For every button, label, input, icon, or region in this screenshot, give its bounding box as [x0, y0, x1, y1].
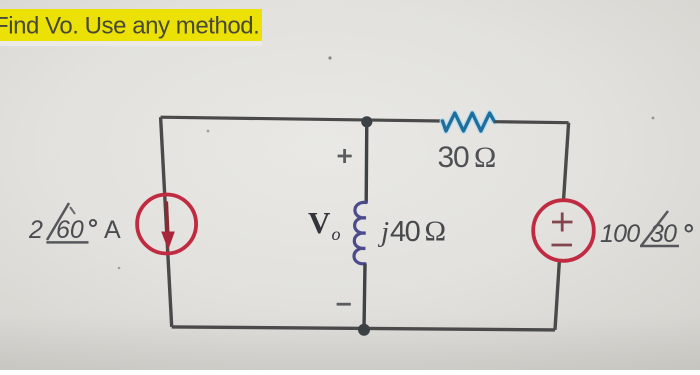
svg-text:o: o [332, 224, 341, 244]
svg-text:Ω: Ω [474, 141, 496, 174]
svg-text:100: 100 [600, 220, 640, 248]
label + (Vo polarity top) [338, 149, 352, 163]
resistor R 30ohm glow [443, 113, 495, 131]
svg-text:V: V [308, 205, 331, 240]
node top [361, 116, 372, 127]
voltage source plus [552, 213, 573, 232]
resistor R 30ohm [443, 113, 495, 131]
wire: top (left part) [161, 117, 443, 121]
speck [207, 130, 210, 133]
wire: right (lower, out of V-source) [555, 261, 559, 330]
wire: top (right part) [495, 122, 569, 123]
current source I1 circle [137, 195, 196, 254]
speck [118, 267, 121, 270]
svg-text:40: 40 [390, 216, 420, 248]
wire: middle branch lower [364, 264, 365, 330]
node bottom [358, 324, 370, 336]
stray tick [70, 207, 75, 214]
yellow highlight bar [0, 41, 262, 46]
svg-text:30: 30 [650, 220, 677, 248]
svg-text:Ω: Ω [425, 216, 447, 248]
wire: left [161, 117, 172, 327]
speck [328, 56, 331, 59]
inductor L j40 [354, 202, 366, 263]
voltage source V1 circle [533, 200, 594, 261]
degree mark (30deg) [686, 225, 693, 232]
label - (Vo polarity bottom) [337, 303, 351, 306]
wire: bottom [172, 327, 555, 330]
svg-text:30: 30 [438, 141, 469, 174]
current source arrow [166, 202, 168, 236]
wire: right (upper, into V-source) [564, 123, 569, 201]
svg-text:2: 2 [28, 216, 43, 244]
svg-text:A: A [104, 216, 121, 244]
voltage source minus [552, 244, 573, 247]
svg-text:Find Vo. Use any method.: Find Vo. Use any method. [0, 13, 259, 40]
angle symbol right [640, 211, 679, 246]
wire: middle branch upper [365, 121, 369, 202]
speck [652, 117, 655, 120]
angle symbol left [46, 203, 88, 242]
degree mark (60deg) [90, 220, 96, 226]
